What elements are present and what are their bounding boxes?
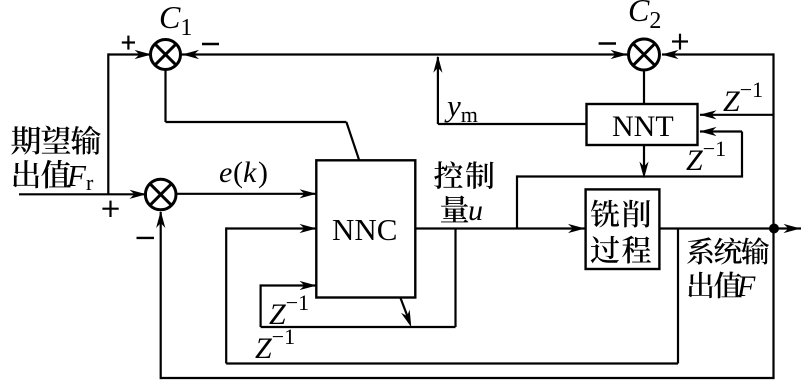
wire: ym distribution line from S1 to S2 (minus inputs) (181, 53, 628, 55)
wire: C1 output down and over to NNC top (164, 70, 166, 123)
wire: delayed output into NNT right input 1 (700, 114, 774, 116)
svg-text:NNT: NNT (612, 110, 674, 143)
label: expected output value Fr (11, 126, 100, 155)
svg-text:e: e (219, 156, 232, 189)
plus sign at S1 left input (122, 41, 135, 43)
wire: Fr branch up to S1 plus input (107, 53, 109, 194)
wire: inner Z-1 feedback loop of u into NNC input 3 (261, 284, 317, 286)
svg-text:ym: ym (444, 88, 478, 127)
wire: error e(k) from S3 into NNC (176, 193, 317, 195)
plus sign at S2 right input (672, 40, 688, 42)
wire: NNC bottom diagonal arrow into inner loop (400, 298, 408, 320)
svg-text:u: u (468, 194, 483, 227)
minus sign at S1 right input (202, 43, 219, 45)
svg-text:Z−1: Z−1 (723, 77, 763, 118)
plus sign at S3 left input (102, 208, 118, 210)
svg-text:Z−1: Z−1 (686, 136, 726, 177)
wire: system output F line with junction node (659, 227, 801, 229)
block NNT (neural network identifier) (587, 104, 698, 145)
wire: main feedback bottom run (161, 377, 774, 379)
junction node on output (769, 224, 779, 234)
svg-text:C2: C2 (628, 0, 661, 34)
wire: ym riser with up arrow from NNT output line (437, 57, 439, 124)
wire: delayed u into NNT right input 2 (700, 130, 742, 132)
block milling process (XiXue GuoCheng) (586, 189, 660, 269)
block NNC (neural network controller) (316, 160, 415, 297)
svg-text:): ) (258, 156, 268, 189)
svg-text:F: F (736, 270, 756, 303)
svg-text:(: ( (233, 156, 243, 189)
svg-text:Fr: Fr (66, 158, 94, 195)
wire: NNT output down arrow (643, 145, 645, 170)
summing junction S2 (C2 comparator) (629, 39, 660, 70)
minus sign at S3 bottom input (137, 237, 155, 239)
svg-text:C1: C1 (159, 0, 192, 41)
label: system output value F (687, 237, 769, 264)
summing junction S3 (error comparator) (145, 179, 176, 210)
wire: control quantity u from NNC to milling process (415, 227, 586, 229)
svg-text:NNC: NNC (332, 212, 397, 247)
wire: right vertical feedback bus (772, 53, 774, 379)
wire: u branch horizontal to NNT (517, 175, 743, 177)
wire: feedback into S2 plus input (662, 53, 774, 55)
wire: NNT output to ym riser (438, 123, 587, 125)
minus sign at S2 left input (599, 42, 616, 44)
wire: outer Z-1 feedback loop of u into NNC input 2 (226, 227, 317, 229)
label control quantity u (434, 161, 493, 189)
wire: feedback riser into S3 minus input (160, 212, 162, 379)
summing junction S1 (C1 comparator) (151, 40, 181, 70)
wire: u branch riser (516, 175, 518, 228)
svg-text:k: k (243, 156, 257, 189)
wire: S2 output down into NNT (643, 70, 645, 104)
wire: input Fr horizontal into S3 (19, 193, 147, 195)
